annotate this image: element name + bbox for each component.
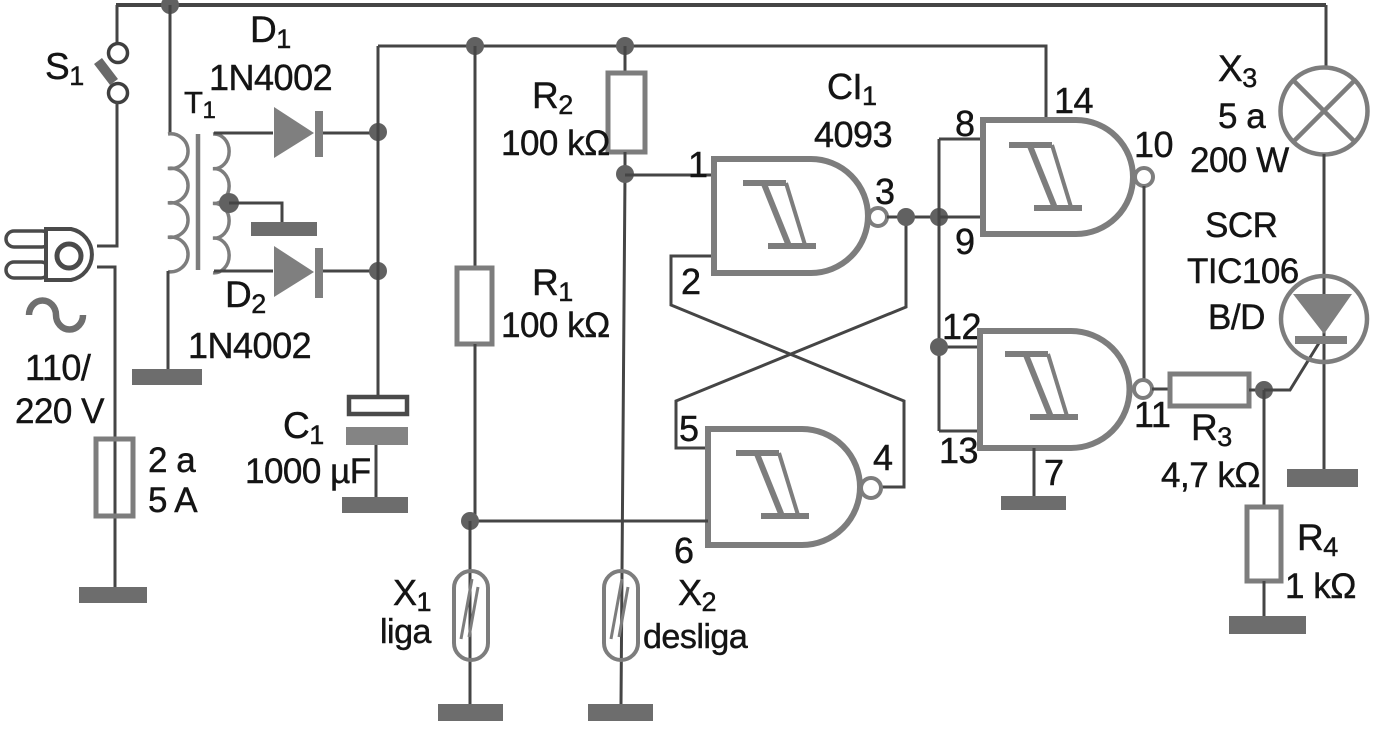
- svg-text:2: 2: [681, 261, 701, 302]
- transformer T1 core: [196, 134, 201, 270]
- svg-text:7: 7: [1044, 452, 1064, 493]
- resistor R2: [608, 73, 645, 152]
- capacitor C1 plus plate: [349, 397, 407, 414]
- wire pin 2 to gate U1b output (cross coupling): [671, 256, 904, 487]
- wire R4 top lead: [1263, 390, 1266, 507]
- gate U1c body: [983, 120, 1133, 234]
- gate U1a output bubble: [869, 208, 887, 226]
- svg-text:1000 µF: 1000 µF: [245, 452, 371, 491]
- svg-text:1: 1: [688, 144, 708, 185]
- svg-text:desliga: desliga: [643, 618, 748, 656]
- ground below X1: [438, 704, 503, 721]
- wire secondary top lead to D1: [214, 132, 273, 135]
- wire SCR gate: [1264, 343, 1319, 390]
- svg-text:5: 5: [679, 408, 699, 449]
- wire pins 8-9-12-13 bracket: [939, 139, 983, 431]
- wire T1 primary bottom lead: [167, 271, 170, 369]
- resistor R3: [1170, 374, 1249, 406]
- transformer T1 primary winding: [168, 134, 188, 272]
- wire center tap to ground: [229, 203, 282, 222]
- wire pin 10 to pin 11: [1143, 186, 1146, 380]
- wire R4 to ground: [1263, 581, 1266, 616]
- svg-text:220 V: 220 V: [15, 392, 105, 431]
- node X1 junction: [461, 512, 479, 530]
- svg-text:9: 9: [955, 221, 975, 262]
- lamp X2: [604, 571, 638, 660]
- svg-text:1N4002: 1N4002: [188, 325, 311, 366]
- svg-text:2 a: 2 a: [148, 441, 196, 480]
- wire pin 6 input from X1: [470, 520, 708, 523]
- AC plug P1: [6, 229, 92, 280]
- gate U1d body: [980, 331, 1130, 448]
- node D1 junction: [369, 123, 387, 141]
- wire pin 1 input: [625, 174, 711, 177]
- svg-text:5 a: 5 a: [1218, 97, 1266, 136]
- ground below SCR: [1287, 469, 1358, 487]
- svg-text:5 A: 5 A: [148, 481, 198, 520]
- ground below R4: [1229, 616, 1306, 634]
- svg-text:1 kΩ: 1 kΩ: [1285, 567, 1356, 606]
- svg-text:4093: 4093: [814, 114, 892, 155]
- svg-text:B/D: B/D: [1208, 298, 1265, 337]
- AC sine symbol: [29, 301, 83, 330]
- gate U1a body: [714, 159, 868, 273]
- ground below C1: [342, 497, 408, 513]
- wire R3 to gate node: [1249, 389, 1264, 392]
- wire plug lower lead to fuse and ground: [97, 267, 115, 587]
- ground below fuse: [79, 587, 147, 603]
- wire gate U1a output to pin 5 (cross coupling): [676, 217, 939, 448]
- resistor R1: [457, 268, 492, 344]
- wire R2 bottom lead to X2: [621, 152, 625, 704]
- resistor R4: [1247, 507, 1281, 581]
- svg-text:10: 10: [1134, 124, 1173, 165]
- svg-text:TIC106: TIC106: [1187, 252, 1299, 291]
- wire S1 to plug: [97, 102, 117, 246]
- gate U1c output bubble: [1135, 168, 1153, 186]
- wire pin 11 to R3: [1152, 388, 1170, 391]
- diode D1: [274, 107, 323, 158]
- node SCR gate junction: [1255, 381, 1273, 399]
- gate U1b hysteresis symbol: [736, 453, 809, 516]
- SCR Q1: [1281, 276, 1367, 362]
- svg-text:SCR: SCR: [1205, 206, 1277, 245]
- transformer T1 secondary winding: [213, 134, 229, 273]
- wire D1 cathode to junction: [323, 132, 378, 135]
- ground below X2: [588, 704, 653, 721]
- node R2 top junction: [616, 37, 634, 55]
- node D2 junction: [369, 262, 387, 280]
- wire secondary bottom lead to D2: [214, 270, 273, 273]
- wire lamp X3 to SCR: [1323, 154, 1326, 469]
- svg-text:200 W: 200 W: [1190, 141, 1289, 180]
- svg-text:11: 11: [1134, 394, 1170, 435]
- ground below T1 primary: [132, 369, 202, 385]
- svg-text:100 kΩ: 100 kΩ: [501, 124, 610, 163]
- svg-text:liga: liga: [380, 613, 432, 651]
- svg-text:13: 13: [939, 430, 978, 471]
- fuse F1: [96, 439, 133, 516]
- node pin 12 junction: [930, 338, 948, 356]
- node pin1 junction: [616, 165, 634, 183]
- ground center tap: [251, 222, 317, 236]
- ground below pin 7: [1001, 496, 1066, 510]
- diode D2: [274, 246, 323, 298]
- capacitor C1 minus plate: [346, 427, 408, 445]
- wire S1 top lead: [116, 5, 119, 43]
- svg-text:1N4002: 1N4002: [209, 57, 332, 98]
- gate U1d output bubble: [1134, 380, 1152, 398]
- node junction top rail to T1 primary: [161, 0, 179, 14]
- wire top supply rail: [116, 3, 1326, 7]
- svg-text:110/: 110/: [25, 347, 91, 388]
- svg-text:12: 12: [942, 306, 981, 347]
- wire top rail to lamp X3: [1325, 5, 1328, 68]
- gate U1d hysteresis symbol: [1005, 354, 1078, 417]
- gate U1b body: [708, 429, 860, 545]
- node R1 top junction: [466, 37, 484, 55]
- wire T1 primary top lead: [169, 5, 172, 134]
- svg-text:100 kΩ: 100 kΩ: [501, 306, 610, 345]
- wire pin 7 to ground: [1033, 448, 1036, 496]
- lamp X1: [469, 521, 472, 704]
- gate U1b output bubble: [861, 478, 881, 498]
- wire Vcc rail: [378, 46, 1046, 120]
- lamp X3: [1281, 68, 1368, 155]
- wire C1 to ground: [375, 445, 378, 497]
- wire D2 cathode to junction: [323, 270, 378, 273]
- gate U1a hysteresis symbol: [743, 183, 816, 246]
- svg-text:4,7 kΩ: 4,7 kΩ: [1161, 456, 1260, 495]
- wire R1 top lead: [474, 46, 477, 268]
- wire rectified rail riser to C1: [377, 46, 380, 396]
- svg-text:6: 6: [674, 530, 694, 571]
- wire R1 bottom lead: [474, 344, 477, 521]
- node pin3 junction: [897, 208, 915, 226]
- node T1 center tap: [219, 193, 239, 213]
- node pins 8-9-12-13 junction: [930, 208, 948, 226]
- switch S1: [98, 44, 128, 103]
- gate U1c hysteresis symbol: [1009, 145, 1082, 208]
- svg-text:14: 14: [1054, 80, 1093, 121]
- svg-text:3: 3: [875, 171, 895, 212]
- wire R2 top lead: [624, 46, 627, 73]
- svg-text:4: 4: [873, 437, 893, 478]
